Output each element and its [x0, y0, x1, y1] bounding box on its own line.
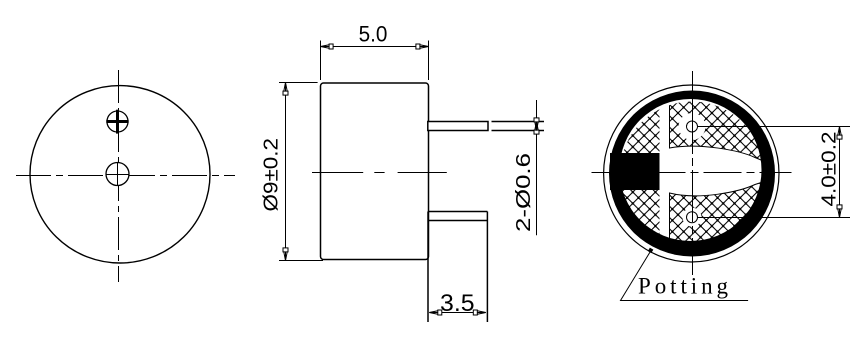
- svg-text:2-Ø0.6: 2-Ø0.6: [513, 153, 535, 232]
- potting label text: [638, 274, 729, 299]
- side view upper pin continuation after break: [492, 122, 545, 131]
- back view potting ring: [609, 90, 775, 256]
- side view lower pin block: [428, 212, 487, 323]
- svg-text:Ø9±0.2: Ø9±0.2: [261, 138, 283, 212]
- back view hatch top-left block: [600, 85, 660, 153]
- dimension 3.5: [429, 290, 486, 317]
- potting label leader line: [621, 248, 749, 301]
- svg-text:4.0±0.2: 4.0±0.2: [819, 132, 841, 207]
- front view horizontal centerline: [16, 175, 235, 177]
- back view hatch top-right block: [670, 86, 767, 162]
- svg-text:5.0: 5.0: [359, 22, 388, 47]
- front view vertical centerline: [118, 70, 120, 282]
- front view body circle: [30, 86, 210, 263]
- back view hatch bottom-left block: [600, 190, 660, 262]
- back view bottom pin hole: [683, 208, 702, 227]
- dimension 5.0: [321, 22, 429, 81]
- front view center hole: [106, 163, 129, 187]
- side view horizontal centerline: [312, 172, 447, 174]
- back view hatch bottom-right block: [670, 181, 767, 261]
- back view top pin hole: [679, 113, 706, 140]
- dimension 4.0 plus/minus 0.2: [698, 127, 851, 218]
- side view upper pin: [428, 122, 488, 131]
- front view top hole: [107, 111, 128, 132]
- front view top hole cross: [106, 110, 128, 134]
- dimension 2-diameter 0.6: [513, 100, 539, 235]
- back view magnet black square: [610, 153, 660, 190]
- dimension diameter 9 plus/minus 0.2: [261, 83, 324, 261]
- back view vertical centerline: [692, 71, 694, 275]
- back view outer circle: [604, 85, 779, 262]
- svg-text:3.5: 3.5: [440, 290, 475, 317]
- side view body: [321, 83, 429, 260]
- back view horizontal centerline: [592, 172, 792, 174]
